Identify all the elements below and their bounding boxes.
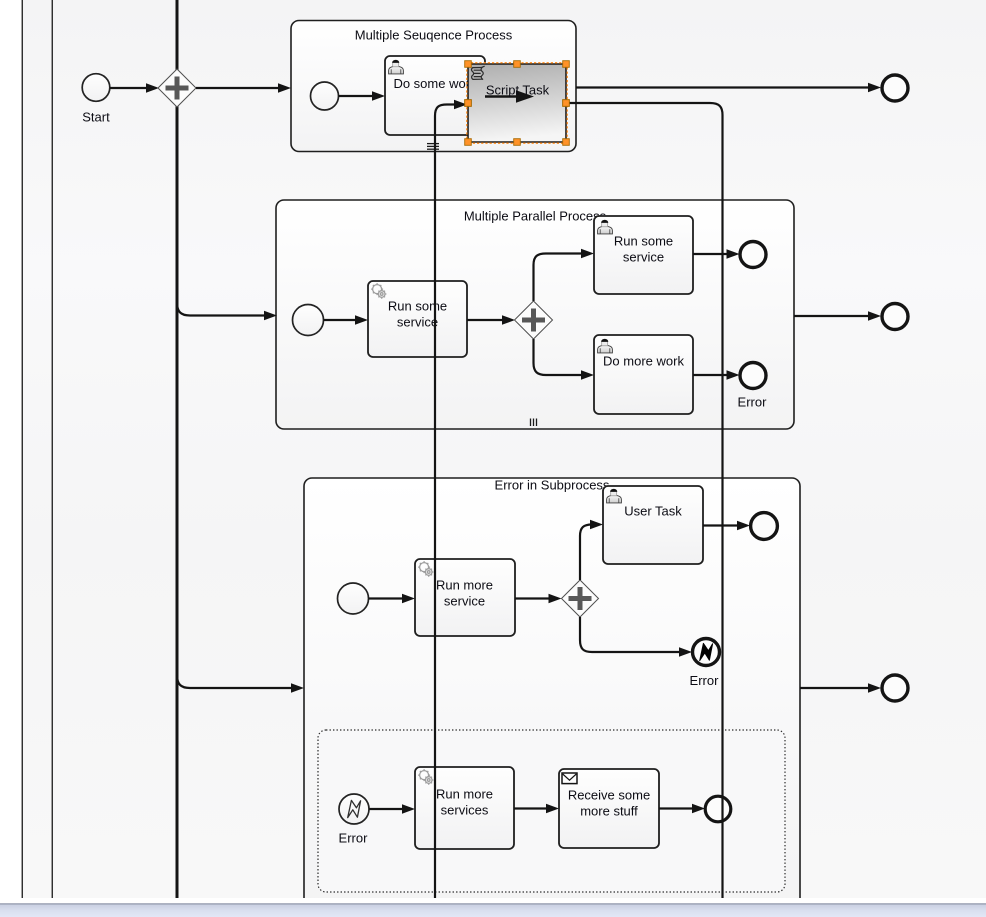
parallel gateway of subprocess 2	[515, 301, 553, 339]
panel divider line left	[22, 0, 23, 898]
svg-text:Error in Subprocess: Error in Subprocess	[495, 478, 610, 493]
start event of subprocess 2	[293, 305, 324, 336]
selection dashed outline of Script Task	[467, 63, 567, 143]
gear icon of Run more service	[418, 561, 433, 577]
selection handle left-mid of Script Task (above flow)	[465, 100, 472, 107]
sequential multi-instance marker of subprocess 1	[427, 144, 439, 150]
task Run some service (subprocess 2 top right)	[594, 216, 693, 294]
flow start1 to Do some work	[339, 91, 386, 101]
svg-text:Error: Error	[339, 831, 369, 846]
subprocess Multiple Seuqence Process	[291, 21, 576, 152]
task Do some work	[385, 56, 485, 135]
flow Receive some stuff to end event	[659, 804, 705, 814]
error end event (subprocess 3)	[690, 639, 720, 689]
flow Do more work to end event Error	[693, 370, 740, 380]
end event 1	[882, 75, 908, 101]
long flow line from Script Task down	[566, 103, 723, 898]
subprocess Error in Subprocess	[304, 478, 800, 915]
svg-text:Multiple Parallel Process: Multiple Parallel Process	[464, 209, 607, 224]
flow error start to Run more services	[369, 804, 415, 814]
user icon of Do more work	[598, 339, 613, 353]
flow Start to gateway	[110, 83, 159, 93]
task Run more services	[415, 767, 514, 849]
parallel gateway (main)	[158, 69, 196, 107]
flow subprocess2 to end event 2	[794, 311, 881, 321]
svg-text:Error: Error	[690, 673, 720, 688]
end event 3	[882, 675, 908, 701]
task User Task	[603, 486, 703, 564]
flow Run more service to gateway 3	[515, 594, 562, 604]
svg-text:Error: Error	[738, 395, 768, 410]
svg-text:Run some: Run some	[388, 299, 447, 314]
end event after User Task	[751, 513, 778, 540]
svg-text:Run more: Run more	[436, 578, 493, 593]
svg-text:service: service	[397, 315, 438, 330]
flow branch into subprocess 2	[177, 302, 277, 320]
flow start3 to Run more service	[369, 594, 416, 604]
flow Run some service to gateway 2	[467, 315, 515, 325]
hidden flow arrow inside Script Task	[485, 90, 534, 103]
end event 2	[882, 304, 908, 330]
user icon of Do some work	[389, 60, 404, 74]
user icon of User Task	[607, 489, 622, 503]
svg-text:services: services	[441, 803, 489, 818]
svg-text:Do some work: Do some work	[393, 76, 477, 91]
event subprocess (dashed)	[318, 730, 785, 892]
end event of event subprocess	[705, 796, 731, 822]
svg-text:Run more: Run more	[436, 787, 493, 802]
svg-text:service: service	[444, 594, 485, 609]
gear icon of Run more services	[418, 769, 433, 785]
flow subprocess3 to end event 3	[800, 683, 881, 693]
main vertical flow line from gateway down	[176, 0, 179, 898]
flow Run some service to end event	[693, 249, 740, 259]
svg-text:service: service	[623, 250, 664, 265]
task Run more service	[415, 559, 515, 636]
flow gateway2 down to Do more work	[534, 339, 595, 380]
svg-text:Start: Start	[82, 110, 110, 125]
envelope icon of Receive some stuff	[562, 773, 577, 784]
flow gateway to subprocess 1	[196, 83, 291, 93]
svg-text:Script Task: Script Task	[486, 83, 550, 98]
parallel gateway of subprocess 3	[562, 580, 599, 617]
selection handle right-mid of Script Task (above flow)	[563, 100, 570, 107]
flow gateway2 up to Run some service (top)	[534, 249, 595, 301]
svg-text:Run some: Run some	[614, 234, 673, 249]
end event Error (subprocess 2)	[738, 363, 768, 410]
bottom white strip	[0, 898, 986, 904]
task Do more work	[594, 335, 693, 414]
task Receive some stuff	[559, 769, 659, 848]
gear icon of Run some service	[371, 283, 386, 299]
flow subprocess1 to end event 1	[576, 83, 881, 93]
end event after Run some service	[740, 242, 766, 268]
long flow line into Script Task	[435, 100, 467, 898]
svg-text:User Task: User Task	[624, 504, 682, 519]
start event Start	[82, 74, 110, 125]
start event of subprocess 3	[338, 583, 369, 614]
svg-text:Multiple Seuqence Process: Multiple Seuqence Process	[355, 27, 513, 42]
svg-text:more stuff: more stuff	[580, 804, 638, 819]
subprocess Multiple Parallel Process	[276, 200, 794, 429]
parallel multi-instance marker of subprocess 2	[531, 419, 537, 427]
start event of subprocess 1	[311, 82, 339, 110]
task Script Task (selected)	[468, 64, 566, 142]
svg-text:Do more work: Do more work	[603, 354, 684, 369]
flow Run more services to Receive some stuff	[514, 804, 559, 814]
flow gateway3 down to error end event	[580, 617, 692, 657]
flow branch into subprocess 3	[177, 675, 304, 693]
selection handles of Script Task	[465, 61, 570, 146]
script icon of Script Task	[471, 66, 484, 79]
svg-text:Receive some: Receive some	[568, 788, 650, 803]
bottom scrollbar band	[0, 904, 986, 917]
panel divider line right	[52, 0, 53, 898]
task Run some service (subprocess 2 first)	[368, 281, 467, 357]
flow start2 to Run some service	[324, 315, 369, 325]
user icon of Run some service (top right)	[598, 220, 613, 234]
flow gateway3 up to User Task	[580, 520, 603, 580]
flow User Task to end event	[703, 521, 750, 531]
error start event (event subprocess)	[339, 794, 369, 846]
